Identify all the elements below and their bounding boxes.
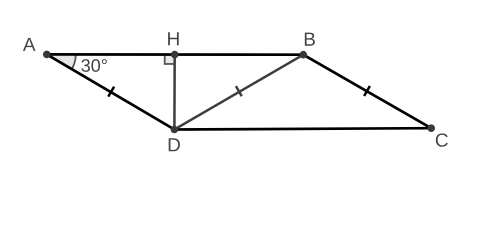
label A — [23, 38, 36, 51]
label B — [305, 33, 315, 46]
point C — [427, 124, 435, 132]
label 30 degrees — [81, 59, 106, 72]
segment HD — [173, 55, 176, 130]
point D — [171, 126, 179, 134]
segment AD — [47, 54, 175, 129]
segment DB — [174, 55, 303, 130]
label H — [168, 32, 179, 45]
segment BC — [303, 55, 431, 129]
tick on BC — [364, 86, 370, 96]
tick on DB — [236, 86, 242, 96]
label D — [169, 138, 180, 151]
segment AB — [47, 53, 304, 56]
point H — [171, 51, 179, 59]
tick on AD — [108, 87, 114, 97]
point A — [43, 51, 51, 59]
segment DC — [174, 128, 431, 129]
angle 30 sector at A — [47, 54, 76, 69]
right angle mark at H — [165, 55, 175, 64]
label C — [436, 133, 448, 146]
point B — [300, 51, 308, 59]
